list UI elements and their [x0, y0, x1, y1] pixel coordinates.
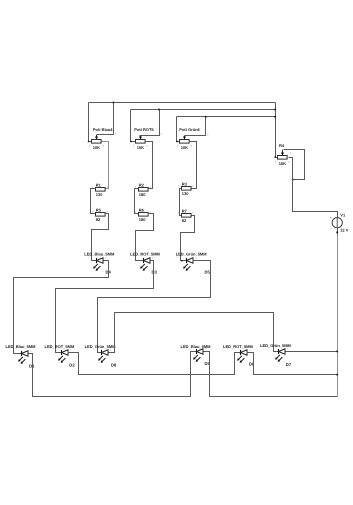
wire R4 wiper loop: [284, 150, 305, 180]
svg-text:LED_ROT_5MM: LED_ROT_5MM: [45, 344, 75, 349]
svg-text:82: 82: [96, 217, 101, 222]
junction node V1-minus/red return: [336, 374, 338, 376]
LED D1 LED_Blau_5MM: [6, 344, 37, 368]
junction node D5 entry: [181, 260, 183, 262]
wire D8 to D7 via upper bus: [109, 313, 279, 353]
LED D8 LED_Gruen_5MM: [85, 344, 117, 368]
wire R4 pin3 to V1 plus: [289, 158, 338, 218]
svg-text:R1: R1: [96, 182, 102, 187]
wire rail to Poti ROT5 pin1: [131, 110, 136, 142]
svg-text:Poti Grün6: Poti Grün6: [179, 127, 200, 132]
svg-text:Poti ROT5: Poti ROT5: [134, 127, 154, 132]
svg-text:D5: D5: [205, 269, 211, 274]
wire Poti Gruen6 pin3 down to R3: [189, 142, 197, 189]
junction node rail/Gruen wiper: [205, 116, 207, 118]
junction node rail/line3: [274, 116, 276, 118]
svg-text:130: 130: [96, 192, 103, 197]
svg-text:LED_ROT_5MM: LED_ROT_5MM: [223, 344, 253, 349]
LED D4 LED_Blau_5MM: [84, 252, 115, 275]
junction node rail/line2: [274, 109, 276, 111]
wire Poti ROT5 wiper to rail: [140, 110, 160, 136]
svg-text:LED_Blau_5MM: LED_Blau_5MM: [6, 344, 37, 349]
resistor R7 82: [178, 208, 195, 223]
resistor R3 130: [178, 181, 195, 196]
svg-text:10K: 10K: [279, 161, 286, 166]
svg-text:D7: D7: [286, 362, 292, 367]
wire D3 anode loop to D2: [56, 261, 154, 353]
svg-text:LED_ROT_5MM: LED_ROT_5MM: [130, 252, 160, 257]
wire V1 minus lead: [337, 228, 339, 235]
resistor R2 180: [135, 182, 152, 197]
svg-text:R4: R4: [279, 143, 285, 148]
wire D5 anode loop to D8: [98, 261, 211, 353]
svg-text:LED_Grün_5MM: LED_Grün_5MM: [176, 252, 208, 257]
svg-text:LED_Blau_5MM: LED_Blau_5MM: [181, 344, 212, 349]
wire D2 to D6 via mid bus: [68, 353, 241, 375]
svg-text:82: 82: [182, 218, 187, 223]
junction node rail/ROT wiper: [158, 109, 160, 111]
wire +12V rail third line: [177, 116, 276, 118]
potentiometer R4 10K: [275, 143, 290, 166]
LED D2 LED_ROT_5MM: [45, 344, 76, 368]
wire V1 minus vertical: [337, 233, 339, 397]
resistor R6 180: [135, 207, 152, 222]
svg-text:LED_Grün_5MM: LED_Grün_5MM: [85, 344, 117, 349]
wire D6 to V1 minus: [247, 353, 338, 375]
wire D1 to bottom bus: [29, 352, 197, 397]
svg-text:D8: D8: [111, 363, 117, 368]
wire R6 to LED D3: [136, 214, 154, 261]
svg-text:V1: V1: [340, 212, 346, 217]
svg-text:LED_Blau_5MM: LED_Blau_5MM: [84, 252, 115, 257]
junction node V1-minus/green return: [336, 350, 338, 352]
junction node Poti Gruen6 pin1: [176, 141, 178, 143]
wire D4 anode loop to D1: [14, 261, 109, 354]
wire rail vertical to R4: [276, 103, 278, 158]
resistor R5 82: [92, 207, 109, 222]
svg-text:12 V: 12 V: [340, 228, 349, 233]
wire Poti Blau4 pin3 down to R1: [102, 142, 109, 189]
potentiometer Poti Grün6 10K: [177, 127, 201, 150]
svg-text:180: 180: [139, 192, 146, 197]
svg-text:R7: R7: [182, 208, 188, 213]
wire +12V rail second line: [131, 109, 276, 111]
LED D5 LED_Gruen_5MM: [176, 252, 211, 275]
wire R2 to R6 left link: [135, 189, 139, 214]
svg-text:D2: D2: [69, 363, 75, 368]
resistor R1 130: [92, 182, 109, 197]
svg-text:10K: 10K: [93, 145, 100, 150]
wire D9 to V1 minus bus: [204, 352, 338, 397]
wire Poti Gruen6 wiper to rail: [185, 117, 206, 136]
svg-text:R6: R6: [139, 207, 145, 212]
LED D7 LED_Gruen_5MM: [260, 343, 292, 367]
wire R3 to R7 left link: [180, 189, 182, 216]
wire R5 to LED D4: [92, 214, 109, 261]
wire D7 to V1 minus: [286, 351, 338, 353]
potentiometer Poti ROT5 10K: [133, 127, 155, 150]
svg-text:D3: D3: [152, 270, 158, 275]
wire +12V rail top line: [89, 102, 276, 104]
wire rail to Poti Gruen6 pin1: [177, 117, 180, 142]
junction node Poti Blau4 pin1: [88, 141, 90, 143]
svg-text:+: +: [330, 216, 332, 220]
svg-text:R5: R5: [96, 207, 102, 212]
svg-text:10K: 10K: [181, 145, 188, 150]
LED D6 LED_ROT_5MM: [223, 344, 255, 366]
junction node rail/Blau wiper: [112, 102, 114, 104]
svg-text:LED_Grün_5MM: LED_Grün_5MM: [260, 343, 292, 348]
potentiometer Poti Blau4 10K: [89, 127, 113, 150]
svg-text:Poti Blau4: Poti Blau4: [93, 127, 113, 132]
svg-text:R3: R3: [182, 181, 188, 186]
wire Poti ROT5 pin3 down to R2: [145, 142, 153, 189]
wire R1 to R5 left link: [91, 189, 96, 214]
svg-text:R2: R2: [139, 182, 145, 187]
LED D3 LED_ROT_5MM: [130, 252, 160, 275]
wire rail to Poti Blau4 pin1: [89, 103, 92, 142]
junction node R4 wiper/pin3: [292, 179, 294, 181]
svg-text:D6: D6: [249, 361, 255, 366]
svg-text:130: 130: [182, 191, 189, 196]
LED D9 LED_Blau_5MM: [181, 344, 212, 366]
wire R7 to LED D5: [181, 216, 195, 261]
svg-text:180: 180: [139, 217, 146, 222]
wire Poti Blau4 wiper to rail: [97, 103, 114, 135]
junction node Poti ROT5 pin1: [130, 141, 132, 143]
voltage source V1 12 V: [330, 212, 349, 232]
svg-text:10K: 10K: [137, 145, 144, 150]
junction node V1 minus terminal: [336, 231, 338, 233]
junction node R4 pin1: [274, 156, 276, 158]
